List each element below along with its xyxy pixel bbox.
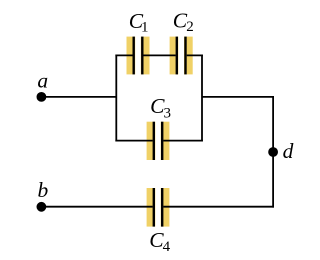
svg-text:1: 1 (141, 19, 149, 35)
svg-text:2: 2 (186, 19, 194, 35)
svg-text:4: 4 (163, 239, 171, 255)
svg-text:a: a (37, 69, 48, 93)
svg-text:d: d (283, 139, 294, 163)
svg-text:3: 3 (164, 106, 172, 122)
svg-text:b: b (38, 178, 49, 202)
